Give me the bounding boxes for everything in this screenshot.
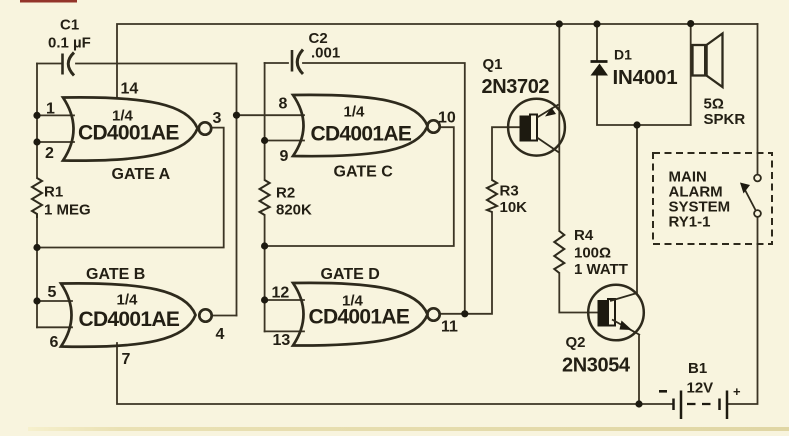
switch RY1-1 contacts: [740, 175, 761, 217]
svg-text:RY1-1: RY1-1: [669, 214, 711, 231]
svg-text:5: 5: [48, 284, 57, 301]
svg-text:B1: B1: [688, 360, 707, 377]
wire pin 7 to bottom rail: [117, 343, 673, 404]
wire pin 10 output feedback: [265, 127, 454, 246]
wire C2 left rail x264.6: [264, 63, 266, 180]
svg-text:1 WATT: 1 WATT: [574, 261, 628, 278]
svg-text:12V: 12V: [687, 380, 714, 397]
wire left rail x37: [36, 64, 38, 179]
top edge red scan mark: [20, 0, 77, 3]
svg-text:1: 1: [46, 101, 55, 118]
wire right rail to switch: [757, 24, 759, 175]
wire D1 branch bottom to box bottom: [597, 76, 691, 125]
svg-text:R2: R2: [276, 185, 295, 202]
svg-text:6: 6: [50, 334, 59, 351]
wire C2 left: [265, 62, 288, 64]
svg-text:4: 4: [216, 326, 225, 343]
svg-text:C1: C1: [60, 17, 79, 34]
NOR gate D body: [293, 283, 440, 346]
resistor R1: [32, 178, 42, 218]
wire C1 right to corner down pin4 rail: [76, 64, 237, 316]
wire pin 4 output: [213, 315, 237, 317]
wire R4 bottom to Q2 base: [559, 273, 597, 313]
node R2-feedback junction: [261, 242, 268, 249]
svg-text:2N3702: 2N3702: [482, 76, 550, 98]
wire Q2 emitter down: [638, 336, 640, 404]
wire pin 1: [37, 114, 74, 116]
wire pin 2: [37, 141, 74, 143]
wire R2 rail below: [264, 215, 266, 331]
wire Q1 vertical rail: [558, 24, 560, 231]
capacitor C2: [292, 50, 303, 75]
wire D1 branch top: [596, 24, 598, 61]
svg-text:10: 10: [438, 110, 456, 127]
svg-text:Q1: Q1: [483, 56, 503, 73]
node pin8 junction: [233, 112, 240, 119]
wire C2 right to corner down pin11 dot: [303, 63, 465, 314]
wire left rail below R1: [36, 218, 38, 327]
transistor Q1: [508, 99, 565, 156]
wire C1 left: [37, 63, 61, 65]
NOR gate C body: [293, 95, 440, 156]
svg-text:2N3054: 2N3054: [562, 355, 631, 377]
svg-text:7: 7: [122, 351, 131, 368]
svg-text:8: 8: [279, 96, 288, 113]
svg-text:1/4: 1/4: [117, 292, 139, 309]
resistor R3: [487, 180, 497, 212]
node collector box junction: [633, 121, 640, 128]
svg-text:1 MEG: 1 MEG: [44, 202, 91, 219]
wire pin 5: [37, 300, 72, 302]
node pin12 junction: [261, 296, 268, 303]
wire pin 12: [265, 299, 304, 301]
NOR gate B body: [61, 283, 212, 346]
svg-text:GATE C: GATE C: [334, 164, 394, 181]
svg-text:1/4: 1/4: [344, 104, 366, 121]
node D1 top junction: [593, 20, 600, 27]
svg-text:100Ω: 100Ω: [574, 245, 611, 262]
battery B1: [674, 391, 728, 420]
svg-text:CD4001AE: CD4001AE: [78, 122, 179, 145]
node pin1 junction: [33, 112, 40, 119]
svg-text:0.1 µF: 0.1 µF: [48, 35, 91, 52]
svg-text:14: 14: [121, 81, 139, 98]
svg-text:SPKR: SPKR: [704, 111, 746, 128]
node pin2 junction: [33, 138, 40, 145]
svg-text:GATE A: GATE A: [112, 166, 171, 183]
wire pin 8: [237, 114, 305, 116]
svg-text:Q2: Q2: [566, 334, 586, 351]
wire pin 6: [37, 326, 72, 328]
svg-text:3: 3: [213, 110, 222, 127]
node pin11 junction: [461, 310, 468, 317]
wire R3 top to Q1 base: [492, 127, 520, 180]
node battery minus junction: [635, 400, 642, 407]
resistor R4: [554, 231, 564, 273]
speaker SPKR: [693, 34, 723, 88]
svg-text:9: 9: [280, 148, 289, 165]
svg-text:R1: R1: [44, 184, 63, 201]
NOR gate A body: [63, 97, 211, 160]
svg-text:R4: R4: [574, 227, 594, 244]
node pin5 junction: [33, 297, 40, 304]
svg-text:CD4001AE: CD4001AE: [309, 306, 410, 329]
transistor Q2: [588, 285, 644, 341]
label minus: [659, 390, 667, 393]
svg-text:13: 13: [273, 332, 291, 349]
svg-text:820K: 820K: [276, 202, 312, 219]
wire pin 11 output to R3: [441, 212, 493, 314]
wire Q2 collector up: [636, 125, 638, 293]
wire top +12V rail: [117, 24, 758, 97]
svg-text:R3: R3: [500, 183, 519, 200]
svg-text:GATE D: GATE D: [321, 266, 380, 283]
resistor R2: [260, 180, 270, 215]
wire pin 9: [265, 140, 304, 142]
node speaker top junction: [687, 20, 694, 27]
svg-text:CD4001AE: CD4001AE: [79, 308, 180, 331]
node pin9 junction: [261, 137, 268, 144]
svg-text:5Ω: 5Ω: [704, 96, 724, 113]
svg-text:IN4001: IN4001: [613, 66, 678, 89]
wire speaker branch: [690, 24, 692, 125]
svg-text:.001: .001: [311, 45, 340, 62]
node feedback-left junction: [33, 244, 40, 251]
svg-text:12: 12: [272, 285, 290, 302]
svg-text:+: +: [733, 384, 741, 399]
svg-text:2: 2: [45, 145, 54, 162]
capacitor C1: [63, 53, 75, 76]
wire pin 3 output feedback: [37, 128, 224, 248]
svg-text:10K: 10K: [500, 199, 528, 216]
svg-text:GATE B: GATE B: [86, 266, 145, 283]
node Q1 emitter rail junction: [556, 20, 563, 27]
diode D1: [591, 62, 609, 76]
wire switch to battery plus: [729, 217, 758, 404]
svg-text:11: 11: [441, 319, 458, 336]
wire pin 13: [265, 330, 304, 332]
dashed relay box: [653, 153, 772, 244]
svg-text:CD4001AE: CD4001AE: [311, 123, 412, 146]
svg-text:D1: D1: [614, 47, 632, 63]
